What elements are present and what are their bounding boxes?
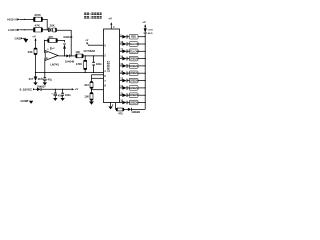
wire pins 6 and 7 tie: [92, 75, 104, 82]
LED LD2 YELLOW pin 18: [120, 41, 146, 46]
resistor R3 33K: [28, 48, 37, 55]
diode D1 1N4148: [63, 35, 73, 56]
node 9..18VDC supply input: [20, 87, 37, 91]
resistor R7 2K2: [84, 82, 93, 89]
capacitor C1 1u coupling: [49, 28, 50, 32]
svg-text:RED: RED: [148, 33, 153, 35]
diode D5 1N4007: [37, 84, 47, 91]
svg-text:470: 470: [118, 111, 123, 115]
capacitor C2 47u bias: [41, 72, 52, 82]
wire pin 2 to resistor R9: [115, 103, 118, 110]
wire bias bus to pin 4: [35, 72, 104, 73]
wire R3 to bias bus: [35, 55, 37, 77]
resistor R6 470K: [76, 56, 87, 73]
ground zener: [33, 82, 37, 85]
svg-text:47K: 47K: [35, 24, 40, 28]
svg-text:GREEN: GREEN: [129, 80, 138, 83]
wire inverting input to feedback: [45, 40, 48, 52]
svg-text:GREEN: GREEN: [129, 87, 138, 90]
svg-text:2K2: 2K2: [84, 83, 89, 87]
LED LD5 GREEN pin 15: [120, 63, 146, 68]
svg-text:+V: +V: [108, 16, 112, 20]
svg-text:33K: 33K: [28, 50, 33, 54]
svg-text:470K: 470K: [76, 62, 82, 66]
diode D2 1N4148: [65, 54, 75, 63]
svg-text:LM3915: LM3915: [107, 61, 111, 73]
wire op-amp output: [58, 55, 66, 56]
pin numbers left: [104, 44, 106, 87]
wire LED anode bus: [144, 33, 146, 109]
LED LD6 GREEN pin 14: [120, 70, 146, 75]
svg-text:GREEN: GREEN: [129, 72, 138, 75]
wire zener to ground: [35, 81, 37, 82]
svg-text:10K: 10K: [75, 50, 80, 54]
wire node A to node C: [57, 30, 72, 56]
svg-text:DOT/BAR: DOT/BAR: [84, 49, 96, 53]
svg-text:+V: +V: [52, 48, 55, 50]
wire pin 9 mode: [89, 44, 104, 46]
capacitor C5 100n: [61, 89, 71, 98]
ground R8: [89, 100, 94, 105]
wire R5 to pin 5: [83, 55, 103, 56]
diode LD11: [144, 28, 154, 35]
wire R9 to D4: [124, 108, 128, 110]
svg-text:GREEN: GREEN: [129, 94, 138, 97]
ground input: [24, 39, 29, 43]
node C junction: [70, 55, 76, 56]
ground C2: [43, 82, 47, 85]
node LOW IN terminal: [8, 28, 34, 32]
LED LD8 GREEN pin 12: [120, 85, 146, 90]
LED LD1 RED pin 1: [120, 34, 146, 39]
svg-text:GND: GND: [20, 99, 26, 103]
svg-text:GREEN: GREEN: [132, 111, 141, 114]
svg-text:10K: 10K: [84, 95, 89, 99]
legend solid line label: [84, 13, 102, 16]
LED LD7 GREEN pin 13: [120, 78, 146, 83]
svg-text:GREEN: GREEN: [129, 102, 138, 105]
resistor R9 470: [116, 108, 124, 115]
svg-text:+: +: [51, 93, 53, 95]
node +V bias supply: [32, 34, 36, 48]
wire node to pin 8: [91, 88, 104, 92]
LED LD10 GREEN pin 10: [120, 100, 146, 105]
node GND bottom terminal: [20, 99, 28, 103]
svg-text:+V: +V: [75, 87, 79, 91]
svg-text:+V: +V: [32, 34, 36, 38]
wire R1 to node A: [43, 19, 48, 29]
svg-text:RED: RED: [131, 36, 136, 39]
svg-text:GND: GND: [15, 37, 21, 41]
capacitor C3 100n: [92, 56, 102, 73]
zener ZD1 4V7: [29, 77, 44, 81]
svg-text:+V: +V: [142, 20, 146, 24]
svg-text:YELLOW: YELLOW: [129, 43, 140, 46]
svg-text:LM741: LM741: [50, 63, 59, 67]
resistor R8 10K: [84, 93, 93, 101]
svg-text:LOW IN: LOW IN: [8, 28, 18, 32]
legend dashed line label: [84, 16, 102, 19]
svg-text:47µ: 47µ: [48, 77, 53, 81]
svg-text:GREEN: GREEN: [129, 65, 138, 68]
LED LD3 YELLOW pin 17: [120, 48, 146, 53]
svg-text:+: +: [41, 78, 43, 80]
svg-text:1N4007: 1N4007: [37, 84, 47, 88]
svg-text:470K: 470K: [34, 13, 41, 17]
trimmer RV1 20K: [50, 24, 57, 32]
svg-text:9..18VDC: 9..18VDC: [20, 87, 33, 91]
svg-text:100n: 100n: [96, 62, 102, 66]
node +V LED supply: [142, 20, 146, 28]
resistor R2 47K: [34, 24, 43, 32]
op-amp U1: [45, 47, 58, 61]
pin 2 ground: [108, 103, 114, 110]
pin 3 +V top: [108, 16, 115, 29]
svg-text:LD11: LD11: [148, 29, 154, 31]
ground C4: [53, 98, 57, 101]
wire op-amp noninverting input to bus: [44, 58, 46, 72]
node A junction: [43, 29, 49, 30]
ground C5: [60, 98, 64, 101]
svg-text:100n: 100n: [65, 93, 71, 97]
LED LD9 GREEN pin 11: [120, 92, 146, 97]
svg-text:HIGH IN: HIGH IN: [7, 17, 18, 21]
node HIGH IN terminal: [7, 17, 33, 21]
svg-text:YELLOW: YELLOW: [129, 50, 140, 53]
svg-text:GREEN: GREEN: [129, 58, 138, 61]
svg-text:+V: +V: [85, 39, 88, 42]
ground bottom terminal: [29, 101, 33, 104]
wire power rail: [41, 87, 78, 91]
capacitor C4 47u: [51, 89, 62, 98]
switch S1 DOT/BAR: [84, 39, 96, 53]
diode D4 GREEN: [128, 108, 140, 114]
wire R4 to diode D1: [57, 40, 64, 42]
svg-text:4V7: 4V7: [29, 77, 34, 81]
svg-text:47K: 47K: [48, 35, 53, 39]
wire D4 to bus: [132, 108, 146, 110]
resistor R4 47K feedback: [48, 35, 58, 43]
node GND input terminal: [15, 37, 26, 41]
LED LD4 GREEN pin 16: [120, 56, 146, 61]
svg-text:1N4148: 1N4148: [63, 35, 73, 39]
resistor R5 10K: [75, 50, 83, 58]
resistor R1 470K: [34, 13, 43, 21]
svg-text:3: 3: [47, 49, 49, 51]
IC U2 LM3915: [104, 29, 120, 103]
svg-text:20K: 20K: [50, 24, 55, 28]
svg-text:1N4148: 1N4148: [65, 59, 75, 63]
